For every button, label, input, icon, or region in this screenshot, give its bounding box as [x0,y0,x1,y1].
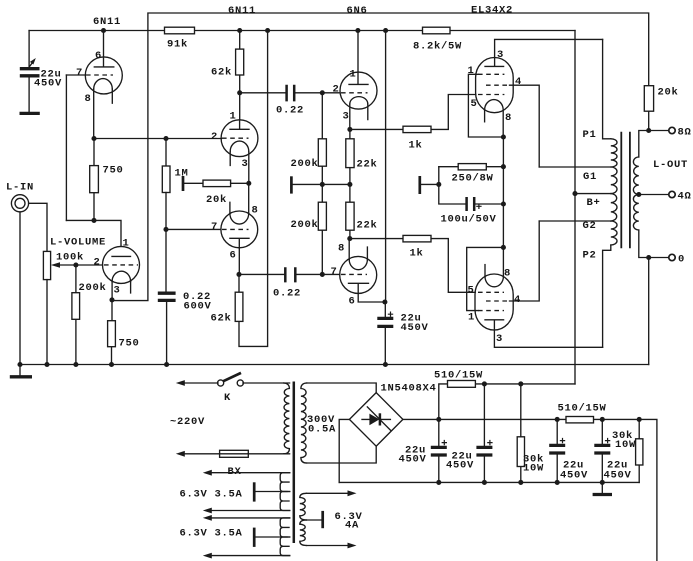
svg-text:200k: 200k [290,219,318,231]
wire psu ground bus [339,481,639,483]
node rail junctions [101,28,106,33]
svg-text:1: 1 [229,111,236,123]
node CT bar #2 [253,528,256,547]
tube V5 6N6 triode driver lower [330,239,384,308]
resistor 750 lower [111,300,114,365]
resistor 30k 10W #2 [638,419,640,482]
capacitor 0.22 second coupling [239,273,340,275]
wire B+ riser x575 [574,31,576,384]
ground psu [601,482,603,492]
tube V3 6N11 triode second stage lower [211,183,259,261]
svg-text:510/15W: 510/15W [557,403,606,415]
svg-text:3: 3 [113,285,120,297]
svg-text:510/15W: 510/15W [434,370,483,382]
transformer T1 HV secondary 300V 0.5A [301,383,307,463]
svg-text:3: 3 [342,111,349,123]
wire bridge minus to psu ground [339,419,349,482]
capacitor 22u 450V B [483,384,485,483]
transformer core [621,132,630,248]
capacitor 22u 450V A [438,419,440,482]
svg-text:450V: 450V [560,470,588,482]
transformer L-OUT secondary [639,131,649,158]
node CT bar #1 [253,482,256,501]
svg-text:3: 3 [497,49,504,61]
svg-text:450V: 450V [446,460,474,472]
svg-text:7: 7 [211,221,218,233]
svg-text:5: 5 [470,98,477,110]
wire wiper to V1b grid [76,264,103,266]
svg-text:~220V: ~220V [170,416,205,428]
resistor 22k upper [349,129,351,238]
resistor 200k upper [321,93,323,275]
svg-text:200k: 200k [78,282,106,294]
resistor 510/15W #2 [566,417,594,423]
svg-text:4Ω: 4Ω [677,191,691,203]
svg-text:750: 750 [102,165,123,177]
svg-text:6: 6 [95,50,102,62]
wire G1 tap [539,166,611,168]
svg-text:1M: 1M [174,168,188,180]
wire jack ground drop [19,212,21,365]
svg-text:8Ω: 8Ω [677,127,691,139]
svg-text:62k: 62k [211,67,232,79]
wire V3 plate to coupling node [238,248,240,275]
resistor 750 upper [93,139,95,221]
wire U2 g3 tie [467,247,504,310]
svg-text:62k: 62k [210,313,231,325]
ground main [19,365,21,376]
resistor 91k [165,27,195,34]
svg-text:450V: 450V [603,470,631,482]
svg-text:8: 8 [505,112,512,124]
svg-text:6.3V 3.5A: 6.3V 3.5A [179,528,242,540]
svg-text:20k: 20k [657,87,678,99]
svg-text:7: 7 [330,266,337,278]
resistor 510/15W #1 [439,384,575,420]
svg-text:0: 0 [678,254,685,266]
svg-text:5: 5 [467,285,474,297]
wire V1a grid riser [65,75,67,220]
resistor 1k lower [350,239,475,293]
wire main ground bus [20,364,649,366]
svg-text:100u/50V: 100u/50V [440,214,496,226]
svg-text:8: 8 [504,268,511,280]
resistor 20k grid stopper [182,176,185,191]
svg-text:G1: G1 [583,171,597,183]
svg-text:600V: 600V [183,301,211,313]
svg-text:L-VOLUME: L-VOLUME [50,237,106,249]
svg-text:K: K [224,392,231,404]
svg-text:250/8W: 250/8W [451,173,493,185]
svg-text:8: 8 [251,205,258,217]
wire plate link y220.4 [66,220,121,246]
svg-text:P1: P1 [582,129,596,141]
resistor 62k lower with feedback loop [239,31,268,347]
capacitor 0.22 first coupling [240,92,340,94]
wire U2 plate to P2 riser [494,330,602,347]
wire U2 screen to G2 tap [510,221,540,301]
wire supply riser x385.6 [385,31,387,303]
wire grid y229.4 [166,228,221,230]
transformer L-OUT primary [603,39,611,138]
capacitor 22u 450V C [556,419,558,482]
resistor 30k 10W #1 [520,384,522,483]
fuse BX [176,451,185,457]
capacitor 22u 450V driver [384,302,386,365]
node bias tap tbar [418,176,421,194]
resistor 8.2k/5W [423,27,451,34]
svg-text:6N11: 6N11 [93,16,121,28]
wire U1 screen to G1 tap [510,85,540,167]
resistor 20k NFB [644,86,653,112]
diode bridge 1N5408X4 [349,393,403,447]
transformer T1 heater winding 6.3V 4A [300,493,307,520]
svg-text:20k: 20k [206,194,227,206]
svg-text:2: 2 [93,257,100,269]
svg-text:EL34X2: EL34X2 [471,5,513,17]
svg-text:L-OUT: L-OUT [653,159,688,171]
svg-text:4: 4 [515,76,522,88]
svg-text:2: 2 [332,84,339,96]
svg-text:8: 8 [84,93,91,105]
transformer T1 heater winding 6.3V 3.5A #2 [280,518,290,537]
node output terminals [646,128,651,133]
svg-text:10W: 10W [523,463,544,475]
capacitor 0.22 600V [165,229,168,364]
resistor 1M [165,139,167,167]
svg-text:22k: 22k [356,220,377,232]
svg-text:L-IN: L-IN [6,182,34,194]
svg-text:100k: 100k [56,252,84,264]
wire B+ rail [29,30,575,32]
transformer T1 core [293,382,296,544]
svg-text:1k: 1k [408,140,422,152]
svg-text:10W: 10W [615,439,636,451]
svg-text:1: 1 [349,69,356,81]
capacitor 22u 450V (left filter) [28,31,30,113]
svg-text:G2: G2 [582,220,596,232]
svg-text:0.22: 0.22 [273,288,301,300]
capacitor 100u/50V [439,167,504,204]
svg-text:6: 6 [229,250,236,262]
svg-text:6N6: 6N6 [346,5,367,17]
wire U2 cathode up [502,137,504,277]
tube V1a 6N11 triode input upper [66,31,122,139]
wire 0-terminal to ground bus [648,258,650,365]
wire B+ raw line [403,419,657,561]
resistor 22k lower [346,202,354,230]
svg-text:0.5A: 0.5A [308,424,336,436]
svg-text:4: 4 [514,294,521,306]
svg-text:8.2k/5W: 8.2k/5W [413,41,462,53]
wire jack to pot [29,203,47,251]
node ladder mid tap [290,176,293,193]
resistor 200k lower [318,202,326,230]
wire NFB top line [112,13,649,301]
svg-text:91k: 91k [167,39,188,51]
wire U1 g3+cathode tie [468,74,503,137]
tube V2 6N11 triode second stage upper [211,111,258,184]
svg-text:22k: 22k [356,159,377,171]
svg-text:450V: 450V [398,454,426,466]
svg-text:450V: 450V [34,78,62,90]
svg-text:6: 6 [348,296,355,308]
svg-text:P2: P2 [582,250,596,262]
svg-text:1: 1 [468,312,475,324]
svg-text:4A: 4A [345,520,359,532]
transformer T1 heater winding 6.3V 3.5A #1 [280,473,290,492]
svg-text:2: 2 [211,131,218,143]
svg-text:750: 750 [118,338,139,350]
node cathode/NFB junction [109,297,114,302]
svg-text:6.3V 3.5A: 6.3V 3.5A [179,489,242,501]
svg-text:0.22: 0.22 [276,105,304,117]
wire SRPP node y138.5 [94,138,221,140]
transformer T1 primary [284,383,290,454]
svg-text:B+: B+ [586,197,600,209]
tube V1b 6N11 triode input lower [93,238,139,300]
resistor 250/8W [439,166,504,168]
svg-text:3: 3 [241,158,248,170]
svg-text:1: 1 [122,238,129,250]
tube U2 EL34 lower [467,265,521,345]
svg-text:7: 7 [76,67,83,79]
capacitor 22u 450V D [601,419,603,482]
node CT bar #3 [321,511,324,528]
tube U1 EL34 upper [467,49,522,124]
wire G2 tap [539,220,611,222]
svg-text:BX: BX [227,466,241,478]
svg-text:6N11: 6N11 [228,5,256,17]
svg-text:1k: 1k [409,248,423,260]
wire U1 plate to P1 riser [495,39,603,57]
svg-text:8: 8 [338,243,345,255]
resistor 1k upper [350,95,476,130]
svg-text:200k: 200k [290,158,318,170]
switch K [176,380,185,386]
resistor 200k grid [75,265,77,365]
wire B+ tap [575,193,611,195]
ground (left filter cap) [20,112,40,115]
svg-text:1N5408X4: 1N5408X4 [380,383,436,395]
resistor 62k upper [239,31,241,120]
svg-text:450V: 450V [401,322,429,334]
svg-text:3: 3 [496,333,503,345]
tube V4 6N6 triode driver upper [332,31,377,130]
